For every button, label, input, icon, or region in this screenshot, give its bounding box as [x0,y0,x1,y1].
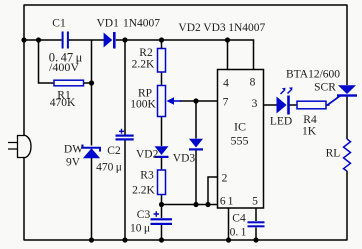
diode VD3 [189,139,203,151]
diode VD2 [155,146,169,158]
svg-text:4: 4 [223,78,229,90]
IC U1 555 timer box [218,70,264,209]
wire C3 to bottom rail [161,225,163,240]
svg-text:555: 555 [231,134,249,148]
resistor R2 [158,49,166,73]
wire pin3 to LED [264,104,277,106]
wire VD2 to R3 [161,158,163,170]
capacitor C2 [116,129,134,141]
diode VD1 [104,32,116,49]
capacitor C3 [151,211,173,225]
svg-text:DW: DW [64,144,83,156]
svg-text:IC: IC [234,120,246,134]
resistor R1 [54,80,84,86]
svg-text:470K: 470K [50,97,76,109]
wire DW branch upper [91,83,93,146]
junction wiper VD3 [193,98,198,103]
svg-text:/400V: /400V [49,60,79,74]
junction bottom C2 [122,237,127,242]
svg-text:SCR: SCR [314,82,336,94]
svg-text:2.2K: 2.2K [132,59,155,71]
wire top border [24,4,347,6]
svg-text:C2: C2 [107,145,121,157]
wire main supply rail y=40 [24,40,254,70]
svg-text:VD3: VD3 [203,22,226,34]
svg-text:2: 2 [222,173,228,185]
svg-text:3: 3 [252,98,258,110]
svg-text:C1: C1 [52,18,66,30]
wire R4 to gate [326,104,330,106]
wire bottom rail [24,239,348,241]
wire rail to R2 [161,40,163,49]
resistor R4 [297,101,326,109]
resistor RL load [344,139,351,171]
svg-text:5: 5 [252,196,258,208]
wire DW branch lower [91,158,93,241]
wire node line to pin6 [162,204,218,206]
wire R2 to RP [161,72,163,86]
wire pin4 to rail [227,40,229,70]
svg-text:C4: C4 [232,213,246,225]
potentiometer RP [158,86,166,117]
svg-text:RL: RL [326,148,341,160]
triac SCR BTA12/600 [327,85,357,105]
wire left border lower [23,158,25,241]
zener diode DW [83,145,101,158]
junction node VD3 [193,202,198,207]
junction bottom C4 [253,237,258,242]
wire right border upper [346,5,348,86]
wire C2 branch upper [124,40,126,135]
wire R1 branch left [39,40,55,83]
junction node pin2 [205,202,210,207]
LED VL [277,87,293,114]
svg-text:R3: R3 [140,170,154,182]
junction rail left border [21,37,26,42]
junction rail R2 branch [159,37,164,42]
svg-text:R2: R2 [139,47,153,59]
wire pin5 to C4 [255,208,257,221]
wire R1 right to rail [84,40,92,83]
svg-text:1: 1 [228,196,234,208]
wire LED to R4 [290,104,298,106]
svg-text:100K: 100K [130,99,156,111]
svg-text:8: 8 [250,77,256,89]
junction node R3 [159,202,164,207]
junction R1 right [89,80,94,85]
capacitor C1 [62,32,69,49]
resistor R3 [158,170,166,195]
svg-text:BTA12/600: BTA12/600 [286,69,340,81]
svg-text:VD3: VD3 [173,153,196,165]
svg-text:LED: LED [270,116,292,128]
junction rail C2 branch [122,37,127,42]
svg-text:R4: R4 [303,114,317,126]
wire right branch RL to bottom [346,171,348,241]
wire wiper to pin7 [180,100,218,102]
svg-text:VD2: VD2 [136,149,159,161]
wire C2 branch lower [124,141,126,241]
svg-text:C3: C3 [137,209,151,221]
wire VD3 branch lower [195,151,197,205]
svg-text:1K: 1K [302,126,317,138]
svg-text:6: 6 [220,196,226,208]
wire R3 to node [161,195,163,205]
svg-text:VD1: VD1 [97,18,120,30]
wire right branch triac to RL [346,97,348,140]
wire pin1 to bottom rail [228,208,230,240]
svg-text:2.2K: 2.2K [132,185,155,197]
svg-text:10 μ: 10 μ [130,223,150,235]
wire C4 to bottom rail [255,228,257,241]
svg-text:9V: 9V [66,157,81,169]
svg-text:470 μ: 470 μ [96,162,122,174]
capacitor C4 [248,221,265,227]
RP wiper arrow [167,97,182,104]
junction bottom C3 [159,237,164,242]
svg-text:0. 1: 0. 1 [230,227,247,239]
svg-text:VD2: VD2 [178,22,201,34]
wire pin2 trigger [208,177,218,205]
wire RP to VD2 [161,117,163,147]
junction bottom pin1 [226,237,231,242]
wire node to C3 [161,205,163,219]
plug P1 [8,136,31,158]
junction bottom DW [89,237,94,242]
svg-text:7: 7 [223,97,229,109]
junction rail R1 branch [36,37,41,42]
wire left border upper [23,5,25,136]
svg-text:1N4007: 1N4007 [123,18,160,30]
svg-text:1N4007: 1N4007 [228,22,265,34]
wire VD3 branch upper [195,101,197,139]
junction rail pin4 [225,37,230,42]
